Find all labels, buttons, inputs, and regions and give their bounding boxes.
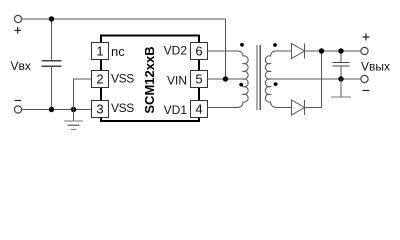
polarity dot primary winding 2 bbox=[239, 83, 243, 87]
capacitor C1 bbox=[41, 61, 61, 66]
wire: pin 5 to transformer center tap bbox=[208, 78, 244, 80]
transformer T1 primary winding 1 (pin 6 to center tap) bbox=[208, 51, 249, 79]
plus sign left bbox=[14, 27, 21, 34]
pin 1 box bbox=[92, 43, 109, 60]
wire: top diode to + output bbox=[305, 50, 361, 52]
output terminal - bbox=[361, 75, 368, 82]
transformer T1 secondary winding 2 bbox=[265, 79, 291, 108]
node: VIN junction bbox=[223, 76, 228, 81]
node: cap bottom bbox=[338, 76, 343, 81]
wire: secondary center tap rail to - output bbox=[271, 78, 361, 80]
transformer T1 secondary winding 1 bbox=[265, 51, 291, 79]
pin 4 box bbox=[191, 101, 208, 118]
input terminal + (top left) bbox=[14, 15, 21, 22]
plus sign right bbox=[363, 34, 370, 41]
node: cap top bbox=[338, 48, 343, 53]
svg-text:3: 3 bbox=[96, 101, 103, 116]
wire: bottom diode lead and riser to top rail bbox=[305, 51, 322, 108]
node: ground junction bbox=[71, 107, 76, 112]
svg-text:VD1: VD1 bbox=[164, 103, 188, 117]
svg-text:Vвых: Vвых bbox=[361, 59, 390, 73]
transformer core bbox=[257, 45, 260, 110]
svg-text:2: 2 bbox=[96, 71, 103, 86]
svg-text:VSS: VSS bbox=[111, 101, 134, 115]
capacitor C2 output top lead bbox=[340, 51, 342, 62]
wire: top rail from + terminal to riser bbox=[22, 18, 226, 20]
pin 5 box bbox=[191, 71, 208, 88]
node: cap bottom junction bbox=[49, 107, 54, 112]
svg-text:Vвх: Vвх bbox=[11, 59, 31, 73]
diode VD top bbox=[292, 44, 305, 59]
minus sign right bbox=[363, 90, 370, 92]
capacitor C2 output bbox=[333, 62, 350, 66]
svg-text:6: 6 bbox=[195, 43, 202, 58]
node: cap top junction bbox=[49, 16, 54, 21]
svg-text:VIN: VIN bbox=[167, 73, 187, 87]
polarity dot secondary winding 1 bbox=[273, 43, 277, 47]
input terminal - (bottom left) bbox=[14, 106, 21, 113]
svg-text:VD2: VD2 bbox=[164, 44, 188, 58]
wire: bottom rail from - terminal to pin 3 bbox=[22, 109, 92, 111]
svg-text:SCM12xxB: SCM12xxB bbox=[142, 46, 157, 113]
svg-text:4: 4 bbox=[195, 101, 202, 116]
polarity dot primary winding 1 bbox=[240, 43, 244, 47]
svg-text:VSS: VSS bbox=[111, 72, 134, 86]
wire: pin 2 to ground riser bbox=[74, 79, 92, 110]
diode VD bottom bbox=[292, 100, 305, 115]
transformer T1 primary winding 2 (center tap to pin 4) bbox=[208, 79, 249, 108]
ground (right, single bar) bbox=[340, 79, 342, 97]
polarity dot secondary winding 2 bbox=[274, 82, 278, 86]
output terminal + bbox=[361, 47, 368, 54]
node: riser joins top rail bbox=[319, 48, 324, 53]
capacitor C2 output bottom lead bbox=[340, 66, 342, 79]
op chip U1 SCM12xxB body bbox=[101, 36, 199, 122]
capacitor C1 bottom lead bbox=[51, 66, 53, 109]
capacitor C1 top lead bbox=[51, 19, 53, 61]
minus sign left bbox=[14, 100, 21, 102]
svg-text:nc: nc bbox=[111, 44, 125, 59]
svg-text:5: 5 bbox=[195, 71, 202, 86]
ground (left) bbox=[73, 110, 75, 122]
svg-text:1: 1 bbox=[96, 43, 103, 58]
wire: riser down to VIN node bbox=[225, 19, 227, 79]
pin 6 box bbox=[191, 43, 208, 60]
pin 3 box bbox=[92, 101, 109, 118]
pin 2 box bbox=[92, 71, 109, 88]
